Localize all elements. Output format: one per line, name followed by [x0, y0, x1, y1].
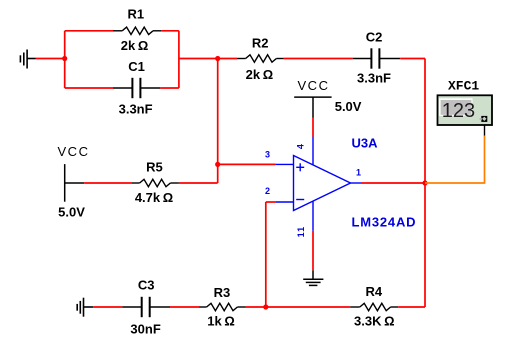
svg-text:3.3nF: 3.3nF: [119, 102, 153, 117]
junction at box left: [62, 56, 67, 61]
wire ground to C3: [93, 306, 122, 308]
pin 3 lead: [276, 163, 294, 165]
svg-text:1k Ω: 1k Ω: [207, 314, 235, 329]
svg-text:5.0V: 5.0V: [335, 99, 362, 114]
wire R1 to box right: [161, 30, 179, 32]
wire node to R4: [266, 306, 351, 308]
svg-text:3.3K Ω: 3.3K Ω: [354, 314, 395, 329]
wire ground to R1C1 box: [36, 58, 65, 60]
wire box right vertical: [178, 31, 180, 88]
wire to pin 3: [218, 163, 276, 165]
wire C1 to box right: [160, 87, 179, 89]
wire right rail vertical: [424, 59, 426, 308]
junction top: [215, 56, 220, 61]
svg-text:C1: C1: [128, 59, 145, 74]
wire XFC1 terminal lead: [484, 121, 486, 136]
wire box bottom to C1: [65, 87, 113, 89]
pin 2 lead: [276, 201, 294, 203]
svg-text:2: 2: [265, 186, 270, 196]
wire orange to XFC1: [425, 136, 485, 183]
svg-text:R5: R5: [146, 160, 163, 175]
junction feedback node: [263, 304, 268, 309]
power VCC (left, rotated): [65, 164, 85, 202]
ground (bottom left, rotated): [77, 298, 93, 317]
frequency counter XFC1: [438, 95, 493, 125]
wire box to top junction: [179, 58, 218, 60]
svg-text:C2: C2: [366, 30, 383, 45]
junction pin 3: [215, 162, 220, 167]
pin 11 lead: [312, 202, 314, 231]
junction output: [422, 180, 427, 185]
svg-text:LM324AD: LM324AD: [352, 214, 417, 229]
wire C2 to right rail: [400, 58, 425, 60]
wire junction to R2: [218, 58, 237, 60]
wire box left vertical: [64, 31, 66, 88]
resistor R5: [132, 179, 179, 186]
svg-text:XFC1: XFC1: [448, 79, 479, 94]
svg-text:3.3nF: 3.3nF: [357, 71, 391, 86]
svg-text:123: 123: [442, 100, 475, 122]
svg-text:R1: R1: [127, 7, 144, 22]
svg-text:3: 3: [265, 149, 270, 159]
pin 1 lead: [351, 182, 362, 184]
svg-text:R4: R4: [365, 284, 382, 299]
svg-text:5.0V: 5.0V: [58, 205, 85, 220]
wire R2 to C2: [284, 58, 353, 60]
wire VCC to pin 4: [312, 118, 314, 137]
wire R5 rail down: [217, 59, 219, 184]
resistor R4: [350, 303, 398, 310]
capacitor C1: [113, 78, 160, 98]
resistor R3: [199, 303, 246, 310]
svg-text:2k Ω: 2k Ω: [121, 38, 149, 53]
wire output to right rail: [362, 182, 426, 184]
wire box top to R1: [65, 30, 113, 32]
resistor R2: [237, 55, 284, 62]
op-amp U3A: [294, 156, 351, 211]
svg-text:30nF: 30nF: [130, 322, 160, 337]
svg-text:R2: R2: [252, 36, 269, 51]
capacitor C3: [122, 297, 170, 317]
svg-text:R3: R3: [214, 285, 231, 300]
svg-text:4.7k Ω: 4.7k Ω: [135, 190, 173, 205]
wire R3 to feedback node: [246, 306, 266, 308]
wire R5 to rail: [179, 182, 218, 184]
svg-text:1: 1: [356, 167, 361, 177]
wire R4 to right rail: [398, 306, 425, 308]
svg-text:VCC: VCC: [58, 144, 90, 159]
svg-text:VCC: VCC: [298, 78, 330, 93]
capacitor C2: [353, 48, 401, 68]
svg-text:11: 11: [296, 226, 306, 238]
ground (top left, rotated): [20, 50, 35, 69]
wire C3 to R3: [170, 306, 199, 308]
svg-text:2k Ω: 2k Ω: [246, 67, 274, 82]
svg-text:C3: C3: [138, 278, 155, 293]
pin 4 lead: [312, 137, 314, 166]
ground (below op-amp): [303, 270, 323, 285]
svg-text:U3A: U3A: [352, 135, 379, 150]
resistor R1: [113, 27, 161, 34]
svg-text:4: 4: [296, 144, 306, 149]
wire to pin 2: [266, 201, 276, 203]
wire VCC to R5: [84, 182, 132, 184]
power VCC (top): [294, 97, 331, 117]
wire pin 11 to ground: [312, 231, 314, 270]
wire feedback vertical to pin 2: [265, 202, 267, 307]
